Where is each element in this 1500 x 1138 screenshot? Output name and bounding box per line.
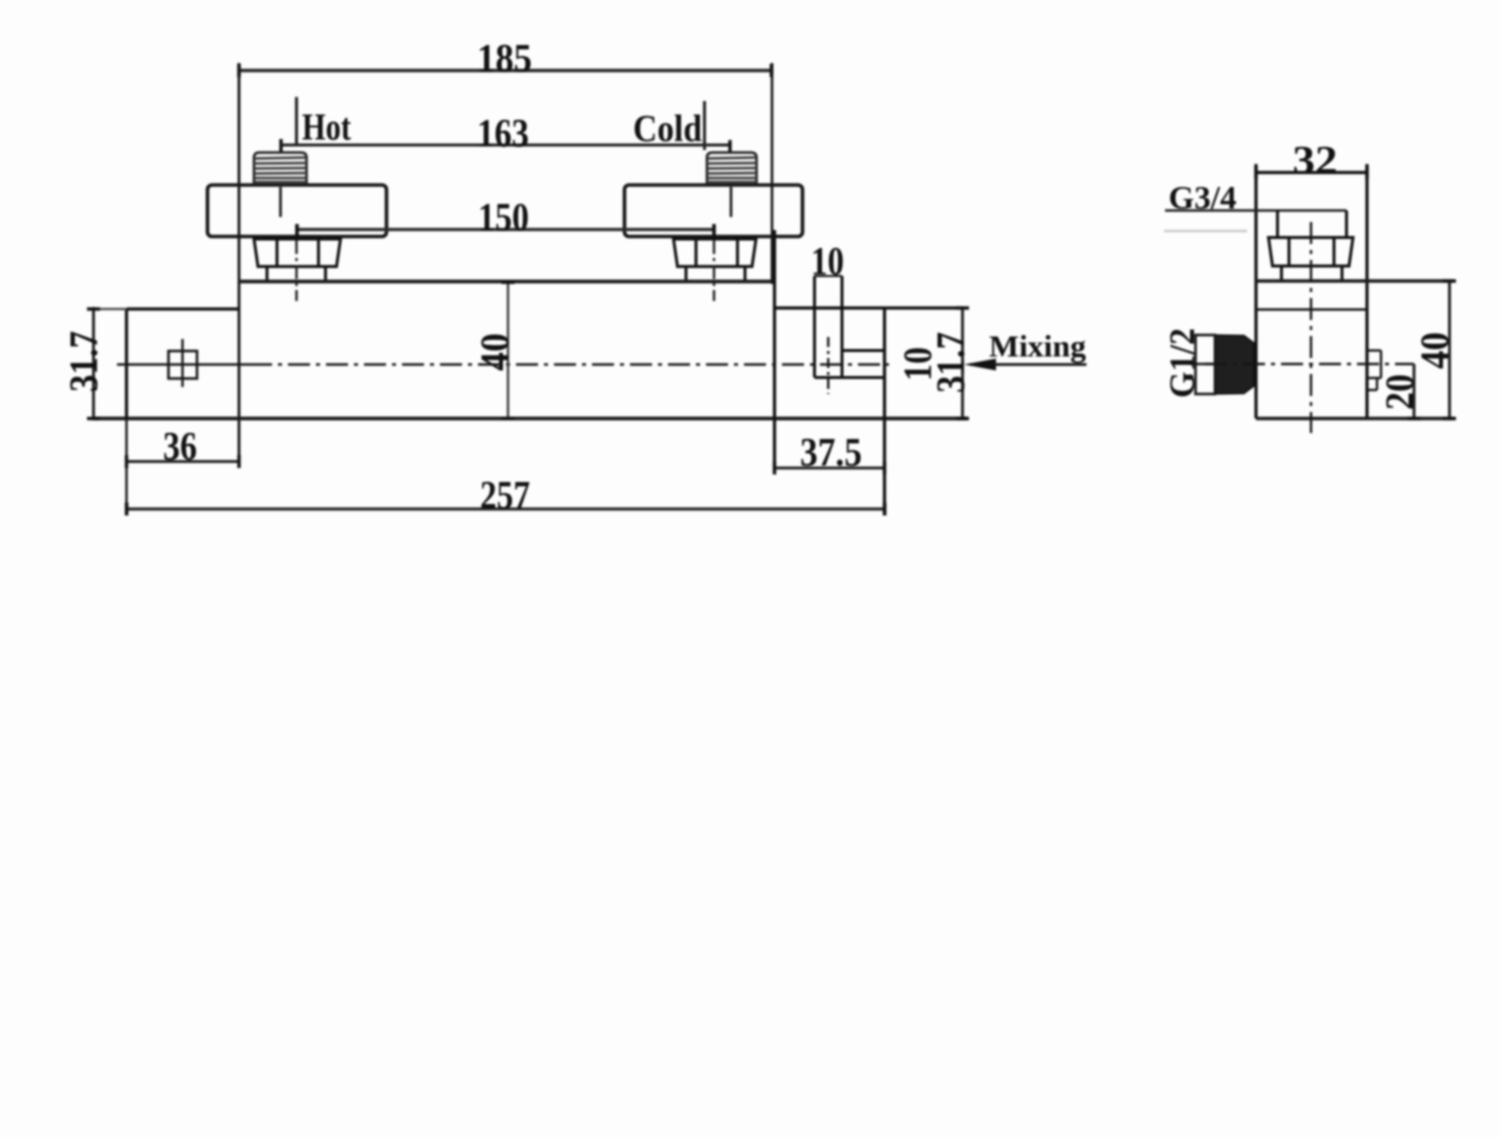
dim 40 mid vertical: [502, 281, 515, 420]
dim 36: [125, 455, 241, 468]
right outlet block: [775, 230, 964, 514]
Mixing arrow: [964, 359, 1087, 371]
svg-text:40: 40: [1412, 332, 1457, 369]
cold cap centerline stub: [730, 187, 733, 217]
outlet slot (10 wide): [815, 276, 885, 378]
cold union body (rounded rect): [625, 185, 803, 237]
hot inlet threaded cap: [254, 153, 307, 186]
slot centerline: [827, 337, 829, 394]
svg-text:37.5: 37.5: [800, 430, 862, 475]
svg-text:10: 10: [811, 239, 844, 284]
dim line 185: [237, 64, 773, 77]
hot cap centerline stub: [279, 187, 282, 217]
side h-centerline: [1205, 363, 1414, 365]
dim 20 side: [1408, 364, 1421, 420]
G1/2 outlet stub (black): [1215, 335, 1254, 394]
bar body top edge: [239, 280, 772, 284]
svg-text:Mixing: Mixing: [989, 329, 1087, 364]
svg-text:40: 40: [472, 333, 517, 371]
svg-text:31.7: 31.7: [928, 332, 973, 393]
main centerline (solid part through left block): [117, 363, 250, 365]
dim 31.7 right: [956, 306, 969, 420]
side v-centerline: [1310, 222, 1312, 433]
side inlet nut: [1269, 238, 1354, 281]
svg-text:185: 185: [477, 36, 532, 81]
hot backnut: [254, 239, 341, 281]
bar body bottom edge: [92, 417, 967, 421]
svg-text:32: 32: [1293, 138, 1338, 183]
fixing hole square: [169, 351, 198, 379]
svg-text:20: 20: [1377, 374, 1422, 410]
side outlet stub (right, stepped): [1367, 351, 1381, 391]
extension line left (x=239): [238, 63, 241, 466]
dim 40 side: [1443, 279, 1456, 420]
svg-text:Cold: Cold: [633, 108, 702, 150]
dim 37.5: [773, 462, 886, 475]
cold nut centerline: [713, 240, 715, 301]
dim line 150: [295, 224, 716, 237]
dim line 163: [279, 139, 731, 154]
hot nut centerline: [295, 240, 297, 301]
G1/2 hose nut (white cap): [1196, 335, 1216, 394]
dim 31.7 left: [87, 307, 127, 420]
side inlet pipe: [1278, 211, 1347, 238]
left end block: [127, 309, 240, 419]
side body bottom (extends right for dim 40): [1256, 417, 1454, 420]
ghost line under G3/4: [1164, 230, 1247, 232]
dim 257: [125, 503, 887, 516]
cold inlet threaded cap: [707, 153, 757, 186]
dim 32 end ticks: [1254, 166, 1257, 179]
side body top (upper square bottom, extends right for dim 40): [1256, 279, 1454, 282]
svg-text:150: 150: [478, 195, 529, 240]
svg-text:31.7: 31.7: [61, 331, 106, 392]
svg-text:36: 36: [163, 424, 197, 469]
extension line right (x=772): [771, 63, 774, 284]
fixing hole v-centerline: [181, 339, 183, 387]
leader Cold: [703, 101, 706, 150]
side body mid line: [1256, 308, 1367, 311]
svg-text:163: 163: [477, 111, 529, 156]
svg-text:G1/2: G1/2: [1162, 328, 1202, 398]
svg-text:Hot: Hot: [302, 107, 351, 149]
cold backnut: [674, 239, 757, 281]
hot union body (rounded rect): [208, 185, 387, 237]
side view outer square / dim 32 top: [1256, 164, 1367, 419]
main centerline (dash-dot): [250, 363, 889, 365]
left block extension down (36/257): [125, 419, 127, 515]
svg-text:257: 257: [480, 473, 530, 518]
leader Hot: [295, 97, 298, 146]
